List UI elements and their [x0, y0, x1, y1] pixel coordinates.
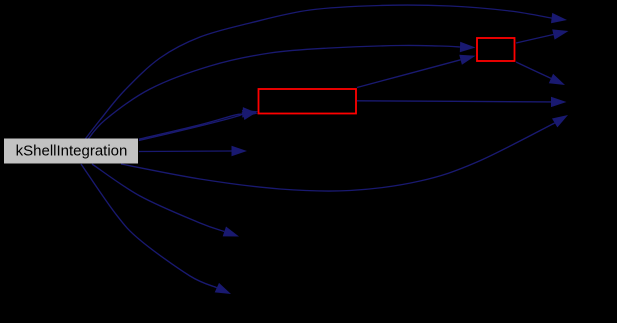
edge kShellIntegration->nodeM	[139, 146, 247, 156]
edge boxB->nodeRM	[516, 62, 565, 85]
edge kShellIntegration->boxB	[86, 42, 476, 142]
node kShellIntegration (current node, grey)	[4, 139, 138, 164]
edge kShellIntegration->nodeTR	[83, 5, 567, 142]
edge kShellIntegration->boxA (b)	[139, 110, 258, 139]
svg-text:kShellIntegration: kShellIntegration	[16, 142, 128, 159]
edge kShellIntegration->nodeB2	[81, 164, 231, 294]
edge kShellIntegration->boxA (a)	[139, 107, 258, 140]
node boxA: truncated node, red border	[259, 89, 357, 114]
edge boxA->boxB	[357, 55, 476, 88]
edge boxA->nodeRM	[357, 97, 567, 107]
edge kShellIntegration->nodeB1	[92, 164, 239, 237]
node boxB: truncated node, red border	[477, 38, 515, 61]
edge boxB->nodeTR	[516, 29, 569, 43]
edge kShellIntegration->nodeRM	[121, 115, 568, 191]
